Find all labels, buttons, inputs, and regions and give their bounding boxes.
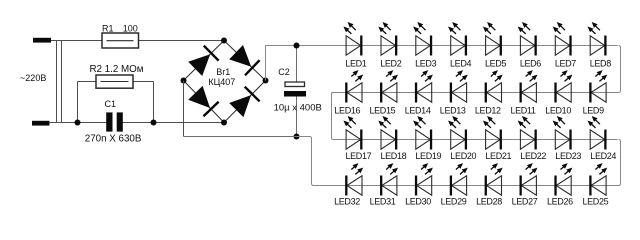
wire	[184, 136, 297, 138]
LED LED15	[382, 83, 397, 102]
diode Br1.D1 (left to top)	[188, 54, 210, 76]
svg-text:LED22: LED22	[520, 151, 546, 161]
svg-text:R1: R1	[102, 24, 114, 34]
svg-text:LED28: LED28	[476, 197, 502, 207]
LED LED27	[521, 176, 536, 195]
LED LED19	[416, 130, 431, 149]
LED LED3	[416, 36, 431, 55]
svg-text:LED24: LED24	[590, 151, 616, 161]
svg-text:LED15: LED15	[370, 105, 396, 115]
svg-text:LED29: LED29	[441, 197, 467, 207]
svg-text:LED27: LED27	[512, 197, 538, 207]
capacitor C1	[106, 112, 112, 131]
LED LED18	[381, 130, 396, 149]
LED LED11	[521, 83, 536, 102]
wire	[297, 137, 347, 186]
capacitor C2	[285, 82, 305, 87]
LED LED17	[346, 130, 361, 149]
svg-text:10µ x 400В: 10µ x 400В	[274, 103, 322, 114]
LED LED20	[451, 130, 466, 149]
node minus (bridge left vertex)	[181, 78, 187, 84]
wire	[61, 41, 63, 123]
LED LED23	[555, 130, 570, 149]
svg-text:LED19: LED19	[415, 151, 441, 161]
wire	[78, 81, 97, 83]
wire	[296, 97, 298, 137]
junction	[294, 43, 300, 49]
svg-text:LED30: LED30	[405, 197, 431, 207]
LED LED21	[486, 130, 501, 149]
resistor R1	[102, 33, 139, 48]
svg-text:LED11: LED11	[510, 105, 535, 115]
wire	[139, 40, 225, 42]
LED LED6	[520, 36, 535, 55]
resistor R2	[96, 75, 133, 88]
LED LED28	[486, 176, 501, 195]
LED LED1	[346, 36, 361, 55]
LED LED12	[486, 83, 501, 102]
wire	[133, 81, 154, 83]
svg-text:LED13: LED13	[440, 105, 466, 115]
LED LED13	[452, 83, 467, 102]
svg-text:LED8: LED8	[590, 59, 611, 69]
terminal: mains input top	[33, 38, 51, 43]
wire	[56, 41, 58, 123]
LED LED30	[417, 176, 432, 195]
svg-text:LED1: LED1	[345, 59, 366, 69]
wire	[51, 40, 102, 42]
wire	[332, 93, 618, 140]
junction	[75, 120, 81, 126]
svg-text:C1: C1	[105, 99, 117, 109]
wire	[346, 45, 618, 47]
LED LED26	[556, 176, 571, 195]
terminal: mains input bottom	[32, 121, 50, 126]
wire	[224, 41, 266, 81]
node AC1 (bridge top vertex)	[221, 38, 227, 44]
wire	[224, 81, 266, 123]
junction	[294, 134, 300, 140]
diode Br1.D4 (bottom to right)	[229, 95, 251, 117]
svg-text:LED10: LED10	[545, 105, 571, 115]
node plus (bridge right vertex)	[263, 78, 269, 84]
svg-text:LED5: LED5	[485, 59, 506, 69]
svg-text:LED25: LED25	[583, 197, 609, 207]
svg-text:LED20: LED20	[450, 151, 476, 161]
svg-text:~220В: ~220В	[20, 73, 46, 83]
wire	[49, 122, 107, 124]
wire	[266, 45, 347, 47]
LED LED10	[556, 83, 571, 102]
LED LED9	[591, 83, 606, 102]
LED LED7	[555, 36, 570, 55]
svg-text:LED3: LED3	[415, 59, 436, 69]
svg-text:LED7: LED7	[555, 59, 576, 69]
LED LED31	[382, 176, 397, 195]
wire	[296, 46, 298, 83]
svg-text:LED16: LED16	[334, 105, 360, 115]
svg-text:LED17: LED17	[346, 151, 372, 161]
svg-text:LED23: LED23	[555, 151, 581, 161]
wire	[123, 122, 225, 124]
wire	[184, 81, 225, 123]
wire	[184, 41, 225, 81]
svg-text:LED4: LED4	[450, 59, 471, 69]
wire	[77, 82, 79, 123]
node AC2 (bridge bottom vertex)	[221, 120, 227, 126]
LED LED22	[520, 130, 535, 149]
wire	[346, 140, 621, 186]
svg-text:C2: C2	[278, 67, 290, 77]
svg-text:LED6: LED6	[520, 59, 541, 69]
svg-text:LED12: LED12	[475, 105, 501, 115]
svg-text:Br1: Br1	[216, 67, 230, 77]
svg-text:LED21: LED21	[485, 151, 511, 161]
LED LED16	[347, 83, 362, 102]
LED LED5	[486, 36, 501, 55]
junction	[151, 120, 157, 126]
svg-text:КЦ407: КЦ407	[208, 77, 235, 87]
svg-text:LED26: LED26	[547, 197, 573, 207]
LED LED24	[590, 130, 605, 149]
svg-text:LED9: LED9	[583, 105, 604, 115]
LED LED14	[417, 83, 432, 102]
LED LED29	[452, 176, 467, 195]
wire	[153, 82, 155, 123]
diode Br1.D2 (top to right)	[229, 45, 251, 67]
svg-text:LED18: LED18	[381, 151, 407, 161]
LED LED4	[451, 36, 466, 55]
diode Br1.D3 (left to bottom)	[188, 86, 210, 108]
svg-text:LED2: LED2	[380, 59, 401, 69]
svg-text:270n X 630В: 270n X 630В	[85, 133, 142, 144]
svg-text:LED32: LED32	[334, 197, 360, 207]
wire	[183, 81, 185, 137]
svg-text:R2 1.2 МОм: R2 1.2 МОм	[89, 64, 143, 75]
LED LED25	[591, 176, 606, 195]
wire	[265, 46, 267, 81]
LED LED2	[381, 36, 396, 55]
LED LED32	[347, 176, 362, 195]
LED LED8	[590, 36, 605, 55]
wire	[332, 46, 621, 93]
svg-text:LED31: LED31	[370, 197, 396, 207]
svg-text:LED14: LED14	[405, 105, 431, 115]
svg-text:100: 100	[123, 24, 138, 34]
